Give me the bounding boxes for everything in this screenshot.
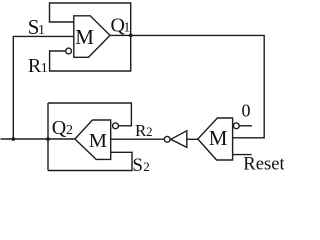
svg-text:Q: Q — [52, 117, 67, 139]
gate U2 bottom M-gate body — [75, 120, 111, 159]
bubble on inverter U4 output — [164, 136, 170, 142]
wire bottom loop top rail to inverted input of bottom gate — [48, 103, 131, 126]
wire S1 input line and left vertical down to Q2 line — [13, 36, 74, 139]
svg-text:S: S — [132, 155, 143, 176]
svg-text:2: 2 — [146, 125, 152, 139]
svg-text:0: 0 — [242, 101, 251, 121]
svg-text:M: M — [75, 25, 94, 49]
junction dot at Q2 / bottom loop vertical — [46, 137, 50, 141]
svg-text:M: M — [209, 126, 228, 150]
gate U1 top M-gate body — [74, 16, 110, 58]
gate U3 right M-gate body — [198, 118, 233, 160]
svg-text:2: 2 — [143, 159, 150, 174]
svg-text:1: 1 — [123, 20, 130, 35]
wire inverter output to right gate point — [187, 138, 198, 140]
wire bottom loop left vertical — [47, 103, 49, 171]
svg-text:Reset: Reset — [243, 154, 284, 175]
inverter U4 triangle — [171, 131, 187, 148]
junction dot at Q2 / left vertical — [11, 137, 15, 141]
wire Q2 output line — [1, 138, 75, 140]
bubble on R1 inverted input of U1 — [66, 48, 72, 54]
svg-text:1: 1 — [41, 61, 48, 76]
svg-text:M: M — [89, 130, 107, 152]
svg-text:R: R — [135, 121, 147, 140]
svg-text:1: 1 — [38, 23, 45, 38]
bubble on inverted feedback input of U2 — [113, 123, 119, 129]
junction dot at Q1 feedback tap — [129, 34, 133, 38]
bubble on constant-0 inverted input of U3 — [233, 123, 239, 129]
wire S2 return loop — [48, 152, 132, 170]
wire constant 0 stub — [239, 125, 252, 127]
wire R2 line from bottom gate to inverter bubble — [111, 138, 165, 140]
svg-text:2: 2 — [66, 123, 73, 138]
wire Q1 output line and right leg down to right gate — [110, 35, 264, 137]
wire top feedback loop (Q1 to top input and to inverted R1 input) — [50, 3, 131, 71]
wire Reset stub — [233, 154, 252, 156]
